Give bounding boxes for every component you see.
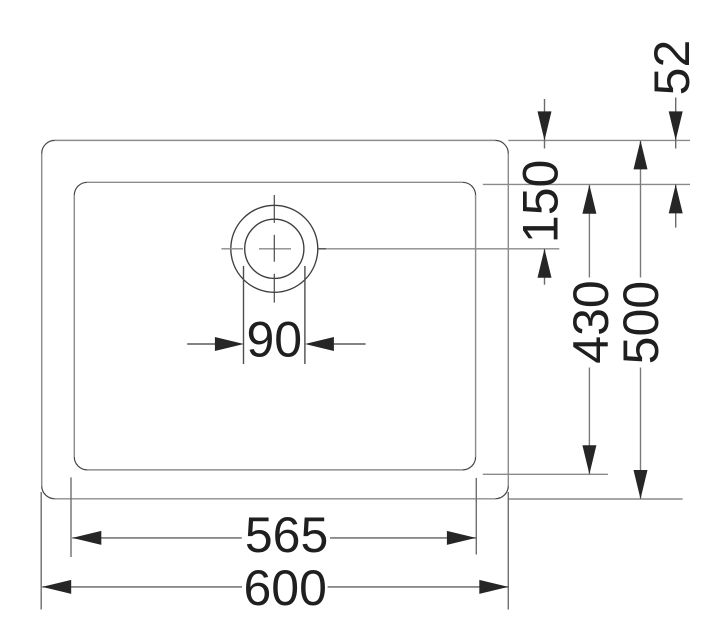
svg-text:430: 430 (563, 280, 619, 363)
dim 600 arrow left (42, 580, 71, 594)
dim 565 line right (330, 537, 476, 539)
horizontal centerline (221, 248, 559, 250)
dim 565 arrow left (72, 531, 101, 545)
dim 600 extension right (507, 492, 509, 610)
dim 600 line right (328, 586, 509, 588)
svg-text:600: 600 (243, 560, 326, 616)
dim 430 line top (588, 185, 590, 278)
dim 150 stem top (544, 99, 546, 149)
dim 500 arrow bottom (634, 470, 648, 499)
dim 565 extension left (70, 477, 72, 557)
dim 90 line left (187, 343, 219, 345)
svg-text:150: 150 (513, 160, 569, 243)
dim 565 line left (72, 537, 242, 539)
dim 52 stem bottom (675, 184, 677, 227)
sink outer outline straight edges (42, 140, 509, 498)
dim 90 arrow right (305, 337, 334, 351)
dim 150 arrow top (538, 111, 552, 140)
dim 600 line left (42, 586, 242, 588)
extension line outer-bottom right (508, 498, 682, 500)
dim 150 arrow bottom (538, 249, 552, 278)
dim 600 extension left (40, 492, 42, 610)
extension line inner-top right (483, 183, 690, 185)
dim 500 line top (640, 140, 642, 277)
dim 90 line right (330, 343, 366, 345)
dim 90 extension right (304, 266, 306, 364)
sink outer outline corner arcs (42, 140, 509, 498)
dim 150 stem bottom (544, 249, 546, 285)
dim 500 line bottom (640, 368, 642, 500)
dim 430 line bottom (588, 368, 590, 475)
dim 500 arrow top (634, 140, 648, 169)
svg-text:90: 90 (246, 312, 302, 368)
extension line inner-bottom right (483, 473, 608, 475)
dim 90 arrow left (215, 337, 244, 351)
dim 600 arrow right (479, 580, 508, 594)
dim 430 arrow bottom (582, 445, 596, 474)
dim 90 extension left (243, 266, 245, 364)
vertical centerline (273, 195, 275, 303)
sink bowl inner outline corner arcs (74, 182, 475, 470)
svg-text:52: 52 (644, 40, 700, 96)
sink bowl inner outline straight edges (74, 182, 475, 470)
dim 430 arrow top (582, 185, 596, 214)
svg-text:500: 500 (613, 281, 669, 364)
dim 52 stem top (675, 98, 677, 149)
drain outer circle (231, 205, 318, 292)
svg-text:565: 565 (245, 507, 328, 563)
drain inner circle (245, 219, 304, 278)
horizontal centerline dark dash (317, 248, 326, 250)
extension line outer-top right (508, 139, 690, 141)
dim 565 extension right (475, 478, 477, 555)
dim 52 arrow bottom (669, 184, 683, 213)
dim 565 arrow right (447, 531, 476, 545)
dim 52 arrow top (669, 111, 683, 140)
